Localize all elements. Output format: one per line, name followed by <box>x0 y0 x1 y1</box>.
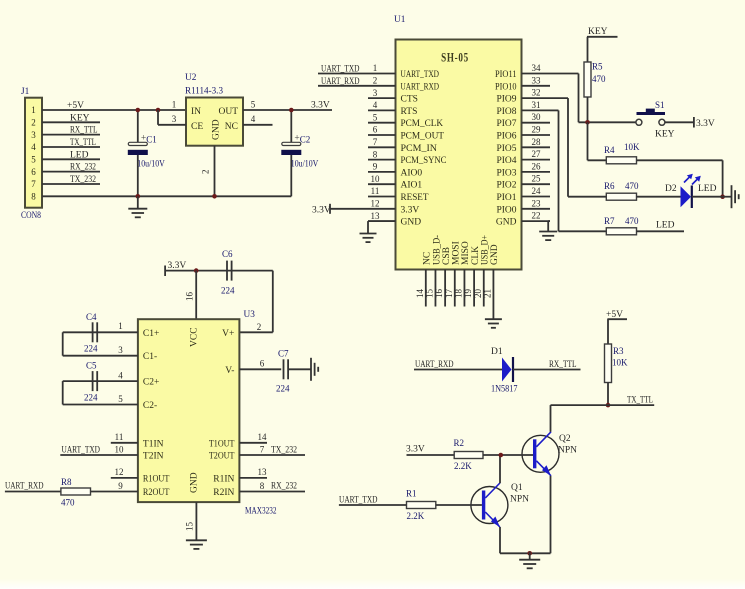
svg-text:LED: LED <box>656 221 675 231</box>
svg-text:14: 14 <box>415 289 425 299</box>
svg-text:3: 3 <box>172 114 177 124</box>
svg-text:TX_232: TX_232 <box>70 175 96 185</box>
svg-text:1: 1 <box>118 321 123 331</box>
svg-text:PIO2: PIO2 <box>496 181 516 191</box>
svg-text:14: 14 <box>258 432 268 442</box>
svg-text:RX_TTL: RX_TTL <box>70 126 98 136</box>
svg-text:4: 4 <box>251 114 256 124</box>
svg-text:2: 2 <box>257 322 262 332</box>
svg-text:LED: LED <box>70 150 89 160</box>
svg-text:27: 27 <box>532 149 542 159</box>
svg-text:PCM_IN: PCM_IN <box>401 144 438 154</box>
svg-text:3.3V: 3.3V <box>406 445 425 455</box>
svg-text:470: 470 <box>61 498 75 508</box>
svg-text:PIO4: PIO4 <box>496 156 516 166</box>
svg-text:KEY: KEY <box>655 130 675 140</box>
svg-text:J1: J1 <box>21 87 30 97</box>
svg-text:17: 17 <box>444 289 454 299</box>
svg-text:MISO: MISO <box>461 241 471 265</box>
svg-text:Q2: Q2 <box>559 434 571 444</box>
svg-text:RESET: RESET <box>401 193 429 203</box>
svg-text:4: 4 <box>31 142 36 152</box>
svg-text:13: 13 <box>258 467 268 477</box>
svg-text:USB_D-: USB_D- <box>432 235 442 265</box>
svg-text:CSB: CSB <box>442 247 452 265</box>
svg-text:24: 24 <box>532 186 542 196</box>
svg-text:11: 11 <box>115 432 124 442</box>
svg-text:R1114-3.3: R1114-3.3 <box>185 87 223 97</box>
svg-text:D2: D2 <box>665 184 677 194</box>
svg-text:470: 470 <box>625 181 639 191</box>
svg-text:UART_TXD: UART_TXD <box>401 70 440 80</box>
svg-text:26: 26 <box>532 161 542 171</box>
svg-text:UART_RXD: UART_RXD <box>401 82 440 92</box>
svg-text:R8: R8 <box>61 477 72 487</box>
svg-text:2: 2 <box>373 76 378 86</box>
svg-text:C2: C2 <box>300 135 311 145</box>
svg-text:1N5817: 1N5817 <box>491 384 518 394</box>
svg-text:TX_232: TX_232 <box>271 445 297 455</box>
svg-text:5: 5 <box>251 100 256 110</box>
svg-text:10: 10 <box>115 444 125 454</box>
svg-text:R1OUT: R1OUT <box>143 474 170 484</box>
svg-text:AIO1: AIO1 <box>401 181 423 191</box>
svg-text:PIO11: PIO11 <box>495 70 517 80</box>
svg-text:R1IN: R1IN <box>213 474 234 484</box>
svg-text:GND: GND <box>212 119 222 140</box>
svg-text:30: 30 <box>532 112 542 122</box>
svg-text:7: 7 <box>373 137 378 147</box>
svg-text:RX_232: RX_232 <box>70 163 96 173</box>
svg-text:PIO7: PIO7 <box>496 119 516 129</box>
svg-text:+5V: +5V <box>67 101 84 111</box>
svg-text:AIO0: AIO0 <box>401 168 423 178</box>
svg-text:8: 8 <box>260 481 265 491</box>
svg-text:23: 23 <box>532 198 542 208</box>
svg-text:5: 5 <box>373 112 378 122</box>
svg-text:9: 9 <box>373 162 378 172</box>
svg-text:C2+: C2+ <box>143 378 159 388</box>
svg-text:3.3V: 3.3V <box>401 205 420 215</box>
svg-text:C5: C5 <box>86 361 97 371</box>
svg-text:NPN: NPN <box>510 495 529 505</box>
svg-text:R2: R2 <box>454 438 465 448</box>
svg-text:3: 3 <box>373 88 378 98</box>
svg-text:KEY: KEY <box>588 27 608 37</box>
svg-text:R4: R4 <box>604 145 615 155</box>
svg-text:10K: 10K <box>624 142 640 152</box>
svg-text:4: 4 <box>373 100 378 110</box>
svg-text:18: 18 <box>454 289 464 299</box>
svg-text:12: 12 <box>371 199 380 209</box>
svg-text:C7: C7 <box>278 349 289 359</box>
svg-text:U2: U2 <box>185 73 197 83</box>
svg-text:6: 6 <box>31 167 36 177</box>
svg-text:224: 224 <box>84 393 98 403</box>
svg-text:3.3V: 3.3V <box>311 101 330 111</box>
svg-text:3.3V: 3.3V <box>696 119 715 129</box>
svg-text:33: 33 <box>532 75 542 85</box>
svg-text:6: 6 <box>373 125 378 135</box>
svg-text:21: 21 <box>483 289 493 298</box>
svg-text:OUT: OUT <box>218 107 238 117</box>
svg-text:PIO3: PIO3 <box>496 168 516 178</box>
svg-text:7: 7 <box>31 179 36 189</box>
svg-text:R2OUT: R2OUT <box>143 488 170 498</box>
svg-text:3: 3 <box>118 345 123 355</box>
svg-text:10: 10 <box>371 174 381 184</box>
svg-text:IN: IN <box>191 107 201 117</box>
svg-text:7: 7 <box>260 444 265 454</box>
svg-text:29: 29 <box>532 125 542 135</box>
svg-text:13: 13 <box>371 211 381 221</box>
svg-text:C1: C1 <box>146 135 157 145</box>
svg-text:25: 25 <box>532 174 542 184</box>
svg-text:R5: R5 <box>592 62 603 72</box>
svg-text:1: 1 <box>31 105 36 115</box>
svg-text:28: 28 <box>532 137 542 147</box>
svg-text:224: 224 <box>221 286 235 296</box>
svg-text:R6: R6 <box>604 181 615 191</box>
svg-text:C4: C4 <box>86 312 97 322</box>
svg-text:PIO9: PIO9 <box>496 95 516 105</box>
svg-text:PCM_SYNC: PCM_SYNC <box>401 156 447 166</box>
svg-text:R2IN: R2IN <box>213 488 234 498</box>
svg-text:PIO1: PIO1 <box>496 193 516 203</box>
svg-text:UART_TXD: UART_TXD <box>62 445 101 455</box>
svg-text:PIO8: PIO8 <box>496 107 516 117</box>
svg-text:MAX3232: MAX3232 <box>245 507 277 517</box>
svg-text:V+: V+ <box>222 329 234 339</box>
svg-text:CLK: CLK <box>471 246 481 265</box>
svg-text:U3: U3 <box>244 310 256 320</box>
svg-text:32: 32 <box>532 88 541 98</box>
svg-text:20: 20 <box>473 289 483 299</box>
svg-text:4: 4 <box>118 371 123 381</box>
svg-text:10K: 10K <box>612 358 628 368</box>
svg-text:RX_TTL: RX_TTL <box>549 360 577 370</box>
svg-text:22: 22 <box>532 211 541 221</box>
svg-text:UART_RXD: UART_RXD <box>415 360 454 370</box>
svg-text:CTS: CTS <box>401 95 418 105</box>
svg-text:NC: NC <box>423 252 433 265</box>
svg-text:LED: LED <box>698 184 717 194</box>
svg-text:19: 19 <box>463 289 473 299</box>
svg-text:T1OUT: T1OUT <box>209 439 235 449</box>
svg-text:S1: S1 <box>655 100 665 110</box>
svg-text:MOSI: MOSI <box>452 241 462 265</box>
svg-text:2.2K: 2.2K <box>454 461 472 471</box>
svg-text:1: 1 <box>172 100 177 110</box>
svg-text:2: 2 <box>201 170 211 175</box>
svg-text:224: 224 <box>84 344 98 354</box>
svg-text:R1: R1 <box>406 489 417 499</box>
svg-text:31: 31 <box>532 100 541 110</box>
svg-text:5: 5 <box>31 155 36 165</box>
svg-text:PIO0: PIO0 <box>496 205 516 215</box>
svg-text:GND: GND <box>190 472 200 493</box>
svg-text:10u/10V: 10u/10V <box>137 159 165 169</box>
svg-text:GND: GND <box>496 218 517 228</box>
svg-text:15: 15 <box>185 522 195 532</box>
svg-text:C2-: C2- <box>143 401 157 411</box>
svg-text:1: 1 <box>373 63 378 73</box>
svg-text:15: 15 <box>425 289 435 299</box>
svg-text:PCM_CLK: PCM_CLK <box>401 119 444 129</box>
svg-text:KEY: KEY <box>70 113 90 123</box>
svg-text:CE: CE <box>191 122 203 132</box>
svg-text:2: 2 <box>31 118 36 128</box>
svg-text:C1+: C1+ <box>143 329 159 339</box>
svg-text:470: 470 <box>592 74 606 84</box>
svg-text:2.2K: 2.2K <box>407 511 425 521</box>
svg-text:PIO10: PIO10 <box>495 82 517 92</box>
svg-text:T2OUT: T2OUT <box>209 452 235 462</box>
svg-text:8: 8 <box>373 149 378 159</box>
svg-text:RX_232: RX_232 <box>271 482 297 492</box>
svg-text:PIO6: PIO6 <box>496 132 516 142</box>
svg-text:USB_D+: USB_D+ <box>481 235 491 265</box>
svg-text:3.3V: 3.3V <box>312 206 331 216</box>
svg-text:GND: GND <box>401 218 422 228</box>
svg-text:TX_TTL: TX_TTL <box>627 396 653 406</box>
svg-text:CON8: CON8 <box>21 211 41 221</box>
svg-text:3: 3 <box>31 130 36 140</box>
svg-text:PCM_OUT: PCM_OUT <box>401 132 445 142</box>
svg-text:V-: V- <box>225 366 234 376</box>
svg-text:470: 470 <box>625 216 639 226</box>
svg-text:8: 8 <box>31 192 36 202</box>
svg-text:10u/10V: 10u/10V <box>291 159 319 169</box>
svg-text:12: 12 <box>115 467 124 477</box>
svg-text:NPN: NPN <box>558 446 577 456</box>
svg-text:Q1: Q1 <box>511 483 523 493</box>
svg-text:VCC: VCC <box>190 327 200 347</box>
svg-text:224: 224 <box>276 384 290 394</box>
svg-text:R7: R7 <box>604 216 615 226</box>
svg-text:GND: GND <box>490 244 500 265</box>
svg-text:NC: NC <box>225 122 238 132</box>
svg-text:5: 5 <box>118 394 123 404</box>
svg-text:UART_TXD: UART_TXD <box>339 496 378 506</box>
svg-text:U1: U1 <box>394 15 406 25</box>
svg-text:16: 16 <box>434 289 444 299</box>
svg-text:11: 11 <box>371 186 380 196</box>
svg-text:SH-05: SH-05 <box>441 50 469 65</box>
svg-text:9: 9 <box>118 481 123 491</box>
svg-text:C6: C6 <box>222 249 233 259</box>
svg-text:16: 16 <box>185 292 195 302</box>
svg-text:PIO5: PIO5 <box>496 144 516 154</box>
svg-text:T2IN: T2IN <box>143 452 164 462</box>
svg-text:RTS: RTS <box>401 107 418 117</box>
svg-text:3.3V: 3.3V <box>168 261 187 271</box>
svg-text:C1-: C1- <box>143 352 157 362</box>
svg-text:R3: R3 <box>613 346 624 356</box>
svg-text:UART_RXD: UART_RXD <box>5 482 44 492</box>
svg-text:D1: D1 <box>491 347 503 357</box>
svg-text:TX_TTL: TX_TTL <box>70 138 96 148</box>
svg-text:6: 6 <box>260 359 265 369</box>
svg-text:34: 34 <box>532 63 542 73</box>
svg-text:T1IN: T1IN <box>143 439 164 449</box>
